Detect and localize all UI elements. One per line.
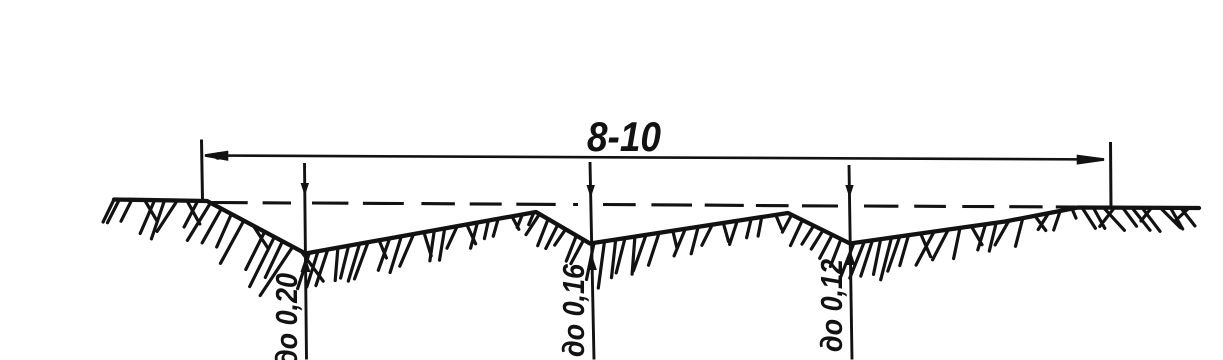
depth arrow A2 <box>587 162 597 360</box>
right extension tick <box>1109 142 1113 209</box>
terrain profile line <box>114 200 1199 254</box>
depth arrow A3 <box>845 165 855 360</box>
svg-text:8-10: 8-10 <box>587 113 661 160</box>
left extension tick <box>202 140 203 201</box>
dashed datum line <box>211 203 1076 208</box>
ground hatching right flat <box>954 208 1195 259</box>
ground hatching around first dip <box>187 203 431 296</box>
ground hatching middle section <box>430 212 698 288</box>
dimension line 8-10 <box>205 152 1104 163</box>
depth arrow A1 <box>301 163 311 360</box>
ground hatching left flat <box>103 200 200 239</box>
ground hatching around third dip <box>702 215 948 280</box>
svg-text:до 0,20: до 0,20 <box>269 273 304 360</box>
svg-text:до 0,16: до 0,16 <box>556 263 591 357</box>
svg-text:до 0,12: до 0,12 <box>814 259 849 352</box>
